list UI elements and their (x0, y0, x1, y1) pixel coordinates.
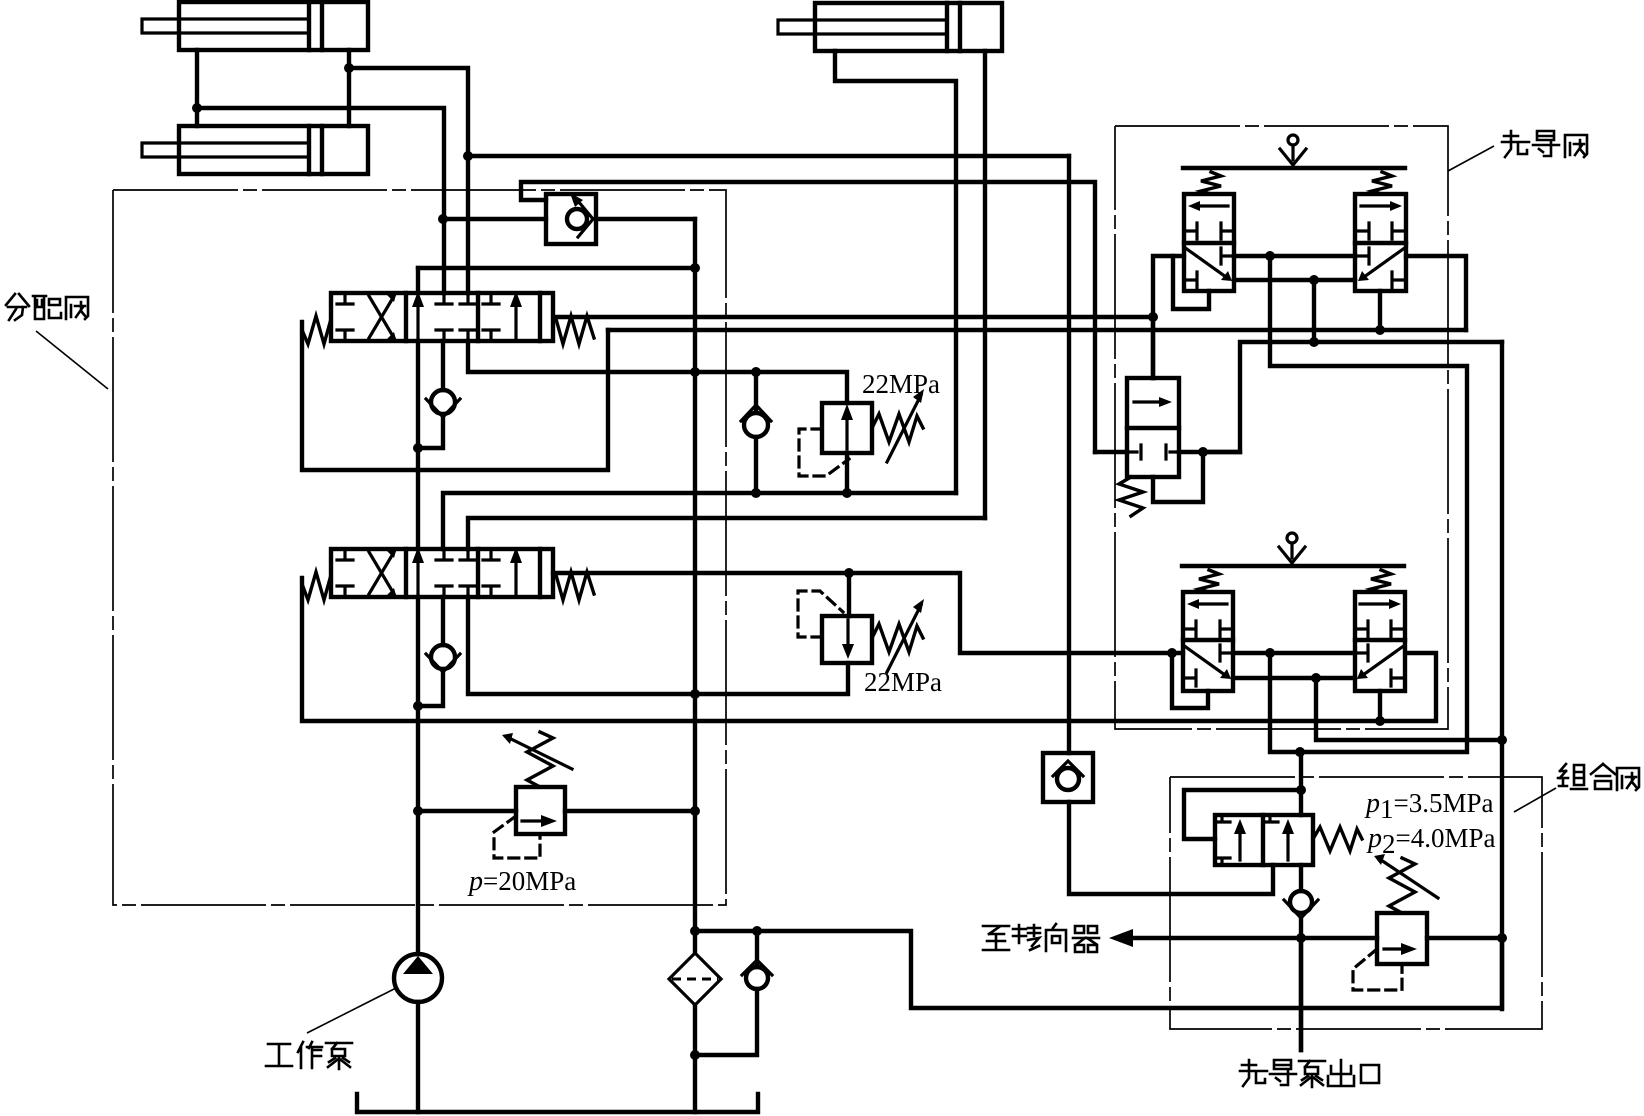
pilot reducing valve BL (1183, 592, 1233, 691)
wire pilot supply mid junction y256 (1234, 254, 1355, 258)
wire pump line to RV3 inlet (418, 809, 516, 813)
wire pilot supply riser upper x1270-y366-x1467 (1270, 256, 1467, 752)
pilot reducing valve BR (1355, 592, 1405, 691)
wire pilot T line y342 (1203, 342, 1502, 452)
node J15 (413, 806, 423, 816)
wire V1 right pilot line y317 to TL output (555, 315, 1153, 319)
wire V1 bottom port to relief line y372 (468, 341, 847, 403)
wire x1314 link (1312, 280, 1316, 342)
V2 right position stubs and arrow (483, 547, 522, 597)
label 工作泵 (266, 1042, 352, 1069)
cylinder CYL2 (lower-left double-acting cylinder) (142, 126, 368, 174)
joystick lever lower (1182, 533, 1404, 566)
label 组合阀 (1558, 764, 1639, 790)
directional control valve V1 body (331, 293, 553, 341)
node J27 (1497, 735, 1507, 745)
pilot operated check valve PC1 (546, 193, 596, 244)
node J6 (413, 443, 423, 453)
wire RV3 outlet to tank column (565, 809, 695, 813)
anti-cavitation check valve CV3 (741, 372, 771, 493)
node J17 (690, 926, 700, 936)
wire TL bottom port bracket (1173, 256, 1209, 309)
node J14 (690, 689, 700, 699)
filter F1 (669, 931, 721, 1112)
spring TL pilot (1201, 172, 1221, 194)
V2 left return spring (302, 572, 331, 600)
svg-text:p=20MPa: p=20MPa (467, 866, 576, 897)
spring BL pilot (1199, 570, 1219, 592)
wire TR right port bracket to y330 (1406, 256, 1466, 330)
label 先导泵出口 (1240, 1060, 1379, 1087)
wire steering line to RV4 (1128, 936, 1377, 940)
pilot reducing valve TR (1355, 194, 1406, 291)
V1 centre position blocked port stubs (436, 293, 476, 341)
V2 left pilot bracket to BR output line y721 (302, 578, 1436, 721)
V2 left position port stubs (337, 549, 353, 597)
pump label pointer (307, 988, 396, 1033)
label 至转向器 (983, 924, 1099, 952)
wire cyl3 right port down to B-line y518 (983, 51, 987, 518)
wire SV1 left port from cyl3 line (1095, 450, 1127, 454)
spring TR pilot (1372, 172, 1392, 194)
wire return line from filter to combination valve y1008 (695, 931, 1502, 1008)
label 先导阀 (1502, 131, 1587, 157)
node J25 (1265, 648, 1275, 658)
distribution box label pointer (36, 331, 108, 389)
node J21 (1265, 251, 1275, 261)
wire cyl1/cyl2 left ports parallel link (195, 50, 199, 126)
node J3 (463, 151, 473, 161)
wire cyl3 A-line y493 (443, 493, 956, 549)
V1 left position crossed arrows (369, 291, 397, 343)
relief valve RV4 combination (1353, 854, 1438, 990)
node J19 (752, 926, 762, 936)
pilot valve dashed enclosure 先导阀 box (1115, 126, 1448, 729)
wire SV1 right port to pilot T (1179, 450, 1240, 454)
wire PRV feedback bracket (1184, 790, 1301, 839)
wire TR bottom port (1378, 291, 1382, 330)
node J1 (192, 103, 202, 113)
V2 centre position flow arrow (412, 547, 424, 597)
wire P carry-over V1 to V2 (416, 341, 420, 549)
node J23 (1375, 325, 1385, 335)
wire V2 right pilot line y573 to BL output (553, 573, 1183, 653)
pressure reducing valve PRV two-position (1215, 815, 1362, 865)
wire PRV top port riser (1299, 752, 1303, 815)
V1 left position port stubs (337, 293, 353, 341)
combination box label pointer (1514, 788, 1556, 812)
wire left cylinder A-line to valve V1 port (197, 108, 444, 293)
node J13 (413, 701, 423, 711)
pilot box label pointer (1448, 146, 1494, 171)
node J16 (690, 806, 700, 816)
node J12 (1167, 648, 1177, 658)
wire cyl1/cyl2 right ports parallel link (347, 50, 351, 126)
node J8 (751, 367, 761, 377)
wire pump pressure line V2 down to pump (416, 597, 420, 954)
node J2 (344, 63, 354, 73)
node J4 (438, 214, 448, 224)
wire right cylinder B-line to valve V1 port (349, 68, 468, 293)
V1 centre position flow arrow (412, 291, 424, 341)
hydraulic pump 工作泵 (394, 954, 442, 1112)
wire RV4 outlet to return (1427, 936, 1502, 940)
wire BR bottom port (1378, 691, 1382, 721)
node J11 (844, 568, 854, 578)
node J32 (1296, 785, 1306, 795)
V2 centre position blocked port stubs (436, 549, 476, 597)
V2 right return spring (556, 572, 594, 600)
wire V1 P-port stub up (416, 268, 420, 293)
selector valve SV1 two-position (1119, 378, 1179, 516)
V2 left position crossed arrows (369, 547, 397, 599)
check valve CV1 under V1 (418, 341, 460, 448)
steering line arrowhead 至转向器 (1109, 929, 1133, 947)
wire V2 bottom port to relief RV2 output y694 (468, 597, 848, 694)
svg-text:22MPa: 22MPa (862, 369, 940, 399)
wire B-line branch to right side (y156) (468, 154, 1069, 158)
wire pilot second line x1502 (1500, 342, 1504, 1009)
wire PC1 right port to tank column (596, 217, 695, 221)
wire BL bottom port bracket to output (1172, 653, 1208, 708)
V1 left return spring (302, 316, 331, 344)
node J9 (751, 488, 761, 498)
node J24 (1309, 337, 1319, 347)
cylinder CYL1 (top-left double-acting cylinder) (142, 2, 368, 50)
node J28 (1497, 933, 1507, 943)
V1 left pilot bracket to TR output (302, 322, 608, 470)
V1 right return spring (556, 316, 594, 344)
directional control valve V2 body (331, 549, 553, 597)
joystick lever upper (1183, 135, 1405, 168)
node J5 (690, 263, 700, 273)
wire pilot pump outlet stub (1299, 938, 1303, 1050)
node J7 (690, 367, 700, 377)
wire open-center bleed valve V1 top to tank column (418, 266, 695, 270)
distribution valve dashed enclosure 分配阀 box (113, 190, 726, 905)
node J29 (1311, 673, 1321, 683)
wire pilot tank link y280 (1234, 278, 1355, 282)
wire cyl3 B-line y518 (468, 518, 985, 549)
node J10 (842, 488, 852, 498)
relief valve RV3 p=20MPa (494, 732, 572, 858)
combination valve dashed enclosure 组合阀 box (1170, 777, 1542, 1029)
tank symbol (357, 1094, 758, 1112)
relief valve RV1 22MPa (799, 389, 924, 493)
node J26 (1295, 747, 1305, 757)
wire lower pair tank link y678 (1233, 676, 1355, 680)
wire x1316 to y740 (1316, 678, 1502, 740)
node J33 (1296, 933, 1306, 943)
wire cyl3 left port down to A-line y493 (835, 51, 956, 493)
wire PC1 left port from A-line (443, 217, 546, 221)
label 分配阀 (6, 294, 88, 320)
cylinder CYL3 (top-middle double-acting cylinder) (778, 3, 1002, 51)
check valve CV5 in box (1043, 156, 1273, 894)
wire tank column x695 (693, 219, 697, 931)
wire lower pair supply link y653 (1233, 651, 1355, 655)
filter bypass check valve CV4 (695, 931, 772, 1055)
V1 right position stubs and arrow (483, 291, 522, 341)
check valve CV6 pilot supply (1284, 865, 1318, 1050)
relief valve RV2 22MPa (798, 573, 924, 672)
node J31 (1198, 447, 1208, 457)
pilot reducing valve TL (1184, 194, 1234, 291)
node J22 (1309, 275, 1319, 285)
svg-text:22MPa: 22MPa (864, 667, 942, 697)
wire V1 left pilot line y330 to TR output (608, 328, 1466, 332)
node J30 (1375, 716, 1385, 726)
wire SV1 top port (1151, 317, 1155, 378)
wire SV1 feedback wrap (1153, 452, 1203, 502)
wire pilot-check bypass line y182 (521, 182, 1095, 452)
check valve CV2 under V2 (418, 597, 460, 706)
node J20 (1148, 312, 1158, 322)
wire TL output left port to x1153 (1153, 256, 1184, 378)
spring BR pilot (1371, 570, 1391, 592)
node J18 (690, 1050, 700, 1060)
